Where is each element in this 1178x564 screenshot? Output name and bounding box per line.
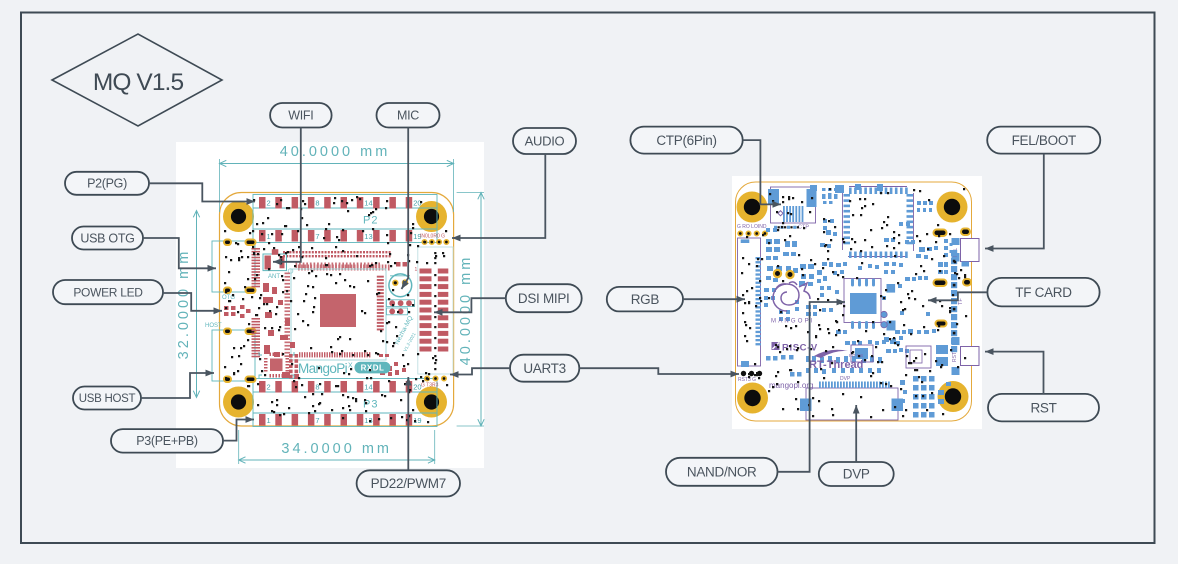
label NAND/NOR <box>666 458 778 486</box>
svg-text:TF: TF <box>958 298 964 305</box>
mounting hole BR right <box>938 381 969 412</box>
DSI connector J_DSI <box>415 247 454 374</box>
label CTP(6Pin) <box>630 127 742 154</box>
right PCB (back, blue) <box>732 176 982 429</box>
svg-text:POWER LED: POWER LED <box>73 285 143 299</box>
red pad pairs left of MangoPi <box>289 354 298 378</box>
white backdrop left <box>176 142 484 468</box>
label FEL/BOOT <box>987 127 1100 154</box>
leader line RGB <box>683 296 745 303</box>
leader line MIC <box>402 128 409 290</box>
power LED pads <box>224 305 251 318</box>
RST button and parts <box>851 337 979 375</box>
label DSI MIPI <box>506 284 582 312</box>
scattered components center <box>795 184 948 342</box>
pad rows under P2 <box>283 251 391 271</box>
label P2(PG) <box>65 172 149 195</box>
bottom middle components <box>806 340 909 374</box>
svg-text:RGB: RGB <box>631 292 660 307</box>
label TF CARD <box>987 278 1099 307</box>
label PD22/PWM7 <box>357 470 460 496</box>
leader line P2(PG) <box>149 183 255 205</box>
svg-text:2: 2 <box>267 383 271 392</box>
MangoPi purple logo <box>773 282 810 311</box>
svg-text:MANGOPI: MANGOPI <box>771 319 815 325</box>
svg-text:CTP(6Pin): CTP(6Pin) <box>656 133 716 148</box>
yellow test pads right top <box>934 229 972 327</box>
svg-text:34.0000 mm: 34.0000 mm <box>281 441 392 457</box>
label RST <box>988 394 1099 422</box>
board outline left <box>220 193 454 427</box>
bottom-right component grid <box>900 376 951 418</box>
svg-text:RXDL: RXDL <box>361 364 385 373</box>
white backdrop right <box>732 176 982 429</box>
connector P2 <box>253 195 437 243</box>
svg-text:DSI MIPI: DSI MIPI <box>518 291 570 306</box>
svg-text:P2(PG): P2(PG) <box>87 177 127 191</box>
connector P3 <box>253 379 437 427</box>
leader line RST <box>985 348 1044 394</box>
svg-text:MangoPi: MangoPi <box>298 361 348 376</box>
USB HOST bracket <box>205 323 256 382</box>
dimension 40.0000 mm top <box>220 144 454 212</box>
svg-text:IN0L0R0 G: IN0L0R0 G <box>420 234 445 240</box>
svg-text:8: 8 <box>315 383 319 392</box>
leader line PD22/PWM7 <box>405 377 412 470</box>
dimension 40.0000 mm right <box>457 193 485 427</box>
label USB HOST <box>73 387 141 410</box>
DVP connector <box>800 376 903 420</box>
extra scatter center right board <box>764 208 932 321</box>
svg-text:8: 8 <box>315 199 319 208</box>
NAND flash chip <box>844 279 896 331</box>
CTP connector <box>768 187 817 231</box>
audio header pads <box>420 234 449 245</box>
RISC-V logo <box>772 342 818 354</box>
G RO LOIND pads <box>737 224 767 236</box>
svg-text:1: 1 <box>415 267 418 273</box>
QFN module <box>843 187 914 259</box>
label UART3 <box>510 355 579 382</box>
vias left board <box>224 196 448 423</box>
leader line FEL/BOOT <box>985 154 1044 252</box>
USB pad stripes left edge <box>252 248 261 357</box>
leader line P3(PE+PB) <box>223 416 254 441</box>
label RGB <box>607 287 683 312</box>
svg-text:RST: RST <box>1030 400 1056 415</box>
svg-text:P3(PE+PB): P3(PE+PB) <box>136 434 198 448</box>
RT-Thread logo <box>809 350 863 371</box>
leader line USB HOST <box>141 370 214 398</box>
component clusters mid-left <box>764 239 847 292</box>
label P3(PE+PB) <box>111 429 223 453</box>
leader line WIFI <box>273 128 301 266</box>
leader line UART3 left <box>450 368 510 378</box>
SoC chip U1 <box>285 263 387 361</box>
svg-text:DVP: DVP <box>840 376 851 382</box>
board outline right <box>736 182 972 421</box>
mounting hole TR right <box>937 192 968 223</box>
PMIC chip <box>259 352 294 378</box>
leader line UART3 right <box>579 368 739 377</box>
leader line CTP(6Pin) <box>743 140 781 208</box>
svg-text:13: 13 <box>364 416 372 425</box>
FEL USB connector <box>944 238 979 267</box>
svg-text:MQ V1.5: MQ V1.5 <box>93 69 184 96</box>
svg-text:RT-Thread: RT-Thread <box>809 359 863 371</box>
USB OTG bracket <box>212 240 256 302</box>
mounting hole TL right <box>737 192 768 223</box>
pad grid below mic <box>387 262 415 315</box>
svg-text:14: 14 <box>364 199 372 208</box>
svg-text:1: 1 <box>267 232 271 241</box>
parts between CTP and QFN <box>741 188 838 243</box>
label WIFI <box>270 103 332 128</box>
svg-text:AUDIO: AUDIO <box>525 134 565 149</box>
bottom components row <box>379 354 406 376</box>
svg-text:RST: RST <box>952 352 958 362</box>
microphone ring <box>389 274 412 297</box>
RGB FPC connector <box>738 238 762 367</box>
svg-text:1: 1 <box>267 416 271 425</box>
TF card pin column <box>951 250 964 352</box>
svg-text:PD22/PWM7: PD22/PWM7 <box>371 476 446 491</box>
svg-text:13: 13 <box>364 232 372 241</box>
svg-text:FEL/BOOT: FEL/BOOT <box>1012 133 1076 148</box>
mounting hole BR <box>416 387 447 418</box>
label POWER LED <box>53 280 163 304</box>
svg-text:40.0000 mm: 40.0000 mm <box>280 144 391 160</box>
svg-text:DVP: DVP <box>843 467 870 482</box>
antenna ANT <box>263 249 287 280</box>
svg-text:P2: P2 <box>363 215 378 227</box>
leader line USB OTG <box>143 238 216 272</box>
label USB OTG <box>72 227 143 250</box>
svg-text:14: 14 <box>364 383 372 392</box>
dimension 32.0000 mm left <box>176 211 200 398</box>
mounting hole TR <box>416 201 447 232</box>
svg-text:NAND/NOR: NAND/NOR <box>687 465 757 480</box>
leader line AUDIO <box>452 154 545 241</box>
silkscreen MangoPi logo <box>298 361 391 376</box>
svg-text:RST3 G: RST3 G <box>738 377 756 383</box>
mounting hole BL right <box>737 383 768 414</box>
svg-text:MIC: MIC <box>397 109 419 123</box>
leader line NAND/NOR <box>778 299 846 472</box>
mounting hole TL <box>223 201 254 232</box>
leader line TF CARD <box>928 292 987 303</box>
svg-text:TF CARD: TF CARD <box>1015 285 1072 300</box>
svg-text:G T3R3: G T3R3 <box>421 383 439 389</box>
svg-text:G RO LOIND: G RO LOIND <box>737 224 767 230</box>
mounting hole BL <box>223 387 254 418</box>
title diamond MQ V1.5 <box>52 34 222 126</box>
svg-text:USB HOST: USB HOST <box>79 393 136 405</box>
small components left area <box>263 283 299 379</box>
dimension 34.0000 mm bottom <box>239 430 435 464</box>
svg-text:2: 2 <box>267 199 271 208</box>
caps row above DVP <box>766 355 881 377</box>
svg-text:7: 7 <box>315 232 319 241</box>
leader line POWER LED <box>162 293 222 314</box>
leader line DSI MIPI <box>434 298 506 316</box>
svg-text:mangopi.org: mangopi.org <box>769 381 813 390</box>
svg-text:HOST: HOST <box>205 323 222 329</box>
label AUDIO <box>513 128 576 154</box>
svg-text:UART3: UART3 <box>523 361 566 376</box>
leader line DVP <box>853 405 860 462</box>
left PCB (front, red) <box>176 142 484 468</box>
RST3 pads <box>738 371 762 383</box>
svg-text:USB OTG: USB OTG <box>80 231 134 245</box>
label DVP <box>819 462 894 486</box>
svg-text:7: 7 <box>315 416 319 425</box>
label MIC <box>377 103 440 128</box>
vias right board <box>741 188 967 418</box>
svg-text:WIFI: WIFI <box>288 109 313 123</box>
svg-text:ANT: ANT <box>268 274 280 280</box>
uart3 pads bottom right <box>421 376 446 388</box>
